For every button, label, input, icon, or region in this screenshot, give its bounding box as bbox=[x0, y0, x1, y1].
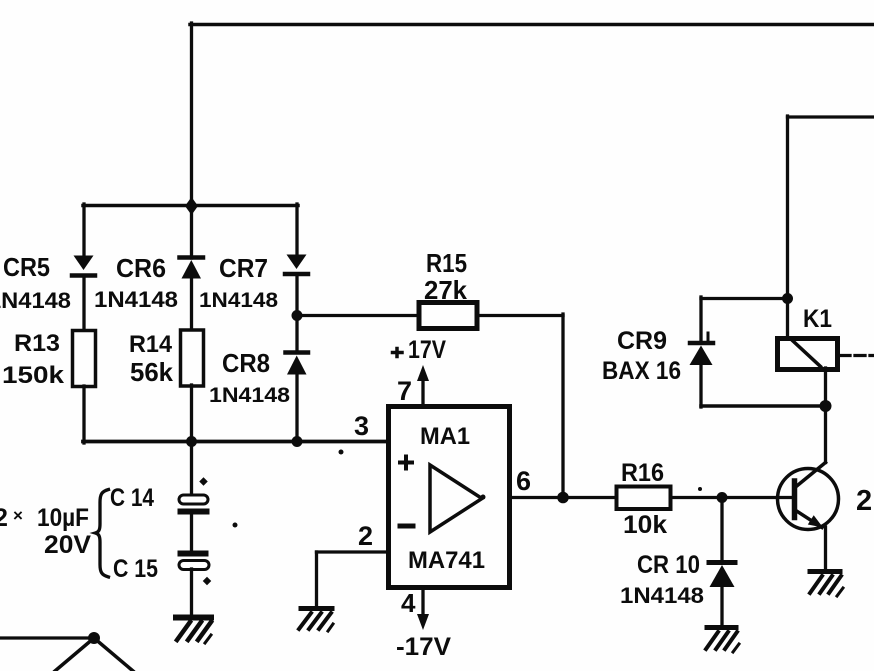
diode CR8 bbox=[286, 353, 309, 375]
relay K1 coil bbox=[778, 339, 838, 370]
wire CR10 stem bbox=[720, 497, 723, 562]
node junction lower stage bbox=[88, 632, 100, 644]
wire R16 to transistor base bbox=[671, 496, 793, 499]
svg-text:K1: K1 bbox=[803, 305, 832, 333]
wire lower triangle left side bbox=[55, 638, 94, 671]
svg-text:CR 10: CR 10 bbox=[637, 551, 700, 579]
op-amp U1 body bbox=[389, 407, 510, 588]
svg-text:1N4148: 1N4148 bbox=[0, 288, 71, 313]
wire pin 2 to ground bbox=[317, 552, 389, 607]
wire R15 to feedback corner bbox=[477, 314, 563, 317]
wire CR7 to node bbox=[295, 275, 298, 352]
ground below CR10 bbox=[706, 628, 739, 653]
ground below C15 bbox=[176, 618, 211, 644]
svg-text:150k: 150k bbox=[2, 362, 65, 389]
svg-text:R16: R16 bbox=[621, 459, 664, 487]
svg-text:-17V: -17V bbox=[396, 633, 451, 661]
svg-text:20V: 20V bbox=[44, 531, 91, 559]
node junction collector bbox=[820, 400, 832, 412]
wire CR10 to ground bbox=[720, 587, 723, 626]
wire CR6 to R14 bbox=[190, 277, 193, 331]
resistor R16 bbox=[617, 487, 671, 510]
resistor R15 bbox=[419, 303, 477, 329]
svg-text:R13: R13 bbox=[14, 330, 60, 357]
svg-text:6: 6 bbox=[516, 466, 531, 496]
svg-text:C 15: C 15 bbox=[113, 555, 158, 583]
node junction output bbox=[557, 492, 569, 504]
label op-amp minus input bbox=[400, 524, 413, 529]
power arrow -17V pin 4 bbox=[417, 589, 429, 630]
dashed actuator line bbox=[840, 354, 874, 357]
svg-text:BAX 16: BAX 16 bbox=[602, 357, 681, 385]
svg-text:1N4148: 1N4148 bbox=[199, 289, 278, 312]
wire R14 to input bus bbox=[190, 385, 193, 443]
node junction bus/CR8 bbox=[292, 436, 303, 447]
transistor base bar bbox=[792, 481, 798, 518]
wire CR6 stem bbox=[190, 204, 193, 258]
ground pin 2 bbox=[299, 609, 333, 632]
svg-text:R15: R15 bbox=[426, 248, 467, 278]
svg-text:17V: 17V bbox=[408, 336, 446, 364]
ground below emitter bbox=[810, 572, 843, 597]
svg-text:CR7: CR7 bbox=[219, 253, 268, 283]
diode CR10 bbox=[709, 563, 735, 588]
svg-text:4: 4 bbox=[401, 588, 416, 618]
svg-text:56k: 56k bbox=[130, 357, 174, 387]
diode CR6 bbox=[180, 258, 204, 279]
svg-text:1N4148: 1N4148 bbox=[620, 583, 704, 608]
svg-text:2: 2 bbox=[0, 504, 8, 532]
node junction CR7/CR8/R15 bbox=[292, 310, 303, 321]
svg-text:10k: 10k bbox=[623, 511, 667, 539]
node junction CR9/relay bbox=[782, 293, 793, 304]
wire relay to collector node bbox=[824, 368, 827, 406]
transistor Q1 body bbox=[778, 469, 839, 530]
svg-text:1N4148: 1N4148 bbox=[94, 287, 178, 312]
svg-text:1N4148: 1N4148 bbox=[209, 384, 290, 407]
wire vertical drop from supply rail bbox=[190, 23, 193, 207]
wire bus to C14 bbox=[190, 440, 193, 496]
svg-text:3: 3 bbox=[354, 411, 369, 441]
wire top supply rail bbox=[190, 23, 874, 27]
svg-text:2: 2 bbox=[358, 521, 373, 551]
svg-text:CR8: CR8 bbox=[222, 348, 270, 378]
resistor R13 bbox=[73, 331, 96, 387]
wire collector bbox=[796, 405, 826, 487]
power arrow +17V pin 7 bbox=[417, 365, 429, 405]
svg-text:MA1: MA1 bbox=[420, 423, 470, 450]
label +17V bbox=[393, 349, 403, 357]
speck left of output node bbox=[481, 495, 486, 500]
speck near C14 bbox=[233, 523, 238, 528]
wire rail to relay bbox=[786, 298, 789, 340]
wire diode anode bus bbox=[83, 204, 298, 208]
brace capacitor group bbox=[96, 490, 109, 578]
wire CR9 stem bbox=[699, 297, 702, 342]
wire CR8 to input bus bbox=[295, 374, 298, 443]
node junction R16/CR10 bbox=[717, 492, 728, 503]
speck near R16 bbox=[698, 487, 702, 491]
wire op-amp input bus bbox=[83, 440, 388, 444]
label op-amp plus input bbox=[400, 457, 412, 469]
wire R13 to input bus bbox=[82, 386, 85, 443]
wire node to CR9 bbox=[701, 297, 788, 300]
diode CR5 bbox=[72, 256, 95, 276]
polarity mark C15 bbox=[203, 577, 211, 585]
svg-text:R14: R14 bbox=[129, 331, 173, 358]
svg-text:7: 7 bbox=[397, 376, 412, 406]
capacitor C15 bbox=[178, 551, 210, 570]
node junction bus/C14 bbox=[186, 436, 197, 447]
wire node to R15 bbox=[297, 314, 419, 317]
wire right feed rail bbox=[788, 116, 874, 299]
svg-text:CR9: CR9 bbox=[617, 327, 667, 355]
svg-text:2N: 2N bbox=[856, 485, 874, 517]
resistor R14 bbox=[181, 330, 204, 386]
svg-text:CR5: CR5 bbox=[3, 252, 50, 282]
wire emitter bbox=[795, 510, 826, 570]
svg-text:×: × bbox=[13, 506, 23, 525]
svg-text:CR6: CR6 bbox=[116, 253, 166, 283]
svg-text:C 14: C 14 bbox=[110, 484, 154, 512]
wire lower triangle right side bbox=[94, 638, 133, 671]
wire CR9 to bottom bbox=[699, 365, 702, 407]
svg-text:10µF: 10µF bbox=[37, 504, 89, 532]
wire C14 to C15 bbox=[190, 514, 193, 552]
wire op-amp output to R16 bbox=[510, 496, 617, 499]
op-amp triangle bbox=[430, 465, 482, 532]
capacitor C14 bbox=[178, 495, 210, 515]
diode CR7 bbox=[285, 255, 308, 275]
wire lower stage input bbox=[0, 636, 94, 639]
speck near pin 3 bbox=[339, 450, 344, 455]
wire CR5 to R13 bbox=[82, 277, 85, 331]
svg-text:MA741: MA741 bbox=[408, 547, 485, 574]
wire CR5 stem bbox=[82, 204, 85, 256]
node junction at diode bus bbox=[185, 197, 198, 215]
wire C15 to ground bbox=[190, 569, 193, 616]
svg-text:27k: 27k bbox=[424, 275, 468, 305]
polarity mark C14 bbox=[199, 477, 207, 485]
diode CR9 bbox=[690, 333, 714, 365]
wire CR9 bottom to node bbox=[701, 404, 826, 408]
wire feedback vertical bbox=[561, 314, 564, 497]
wire CR7 stem bbox=[295, 204, 298, 255]
